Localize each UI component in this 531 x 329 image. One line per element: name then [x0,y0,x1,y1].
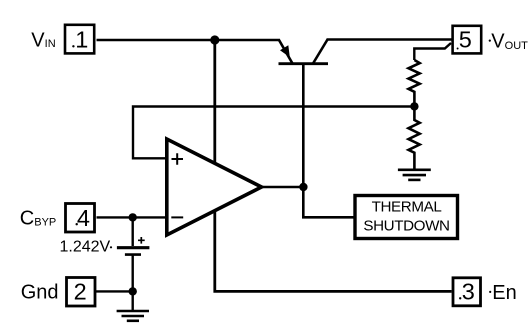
transistor Q1 PNP pass element [279,40,329,64]
wire reference to ground node [131,255,133,311]
voltage reference 1.242V battery [117,237,149,255]
node bypass junction dot [129,213,137,221]
wire bypass to reference [131,217,133,246]
wire inverting input from pin 4 [97,216,167,218]
emitter arrow [280,45,290,57]
svg-text:5: 5 [459,26,472,52]
svg-text:Gnd: Gnd [21,281,59,303]
battery plus plate [117,246,149,249]
op-amp U1 error amplifier [167,139,262,235]
wire VIN vertical supply to amp and En line to pin 3 [215,40,452,291]
svg-text:1: 1 [75,27,88,53]
ground below R2 [398,170,431,180]
wire op-amp output [262,186,304,188]
ground below reference [117,311,149,321]
svg-text:3: 3 [462,279,475,305]
emitter diagonal [279,40,293,64]
svg-text:2: 2 [74,279,87,305]
wire Gnd pin to node [96,290,133,292]
wire op-amp output to transistor base and thermal shutdown [303,64,353,217]
wire feedback from divider tap to + input [133,107,414,159]
svg-text:THERMAL: THERMAL [372,199,442,216]
battery minus plate [125,253,141,256]
node output junction dot [299,183,307,191]
battery plus sign [138,237,145,244]
base bar [279,62,329,65]
collector diagonal [313,40,328,64]
svg-text:4: 4 [77,205,90,231]
node feedback tap dot [410,102,418,110]
svg-text:1.242V: 1.242V [60,239,111,256]
resistor R2 [409,106,420,169]
wire collector to pin 5 [327,38,452,40]
pin box 5 [453,26,482,54]
svg-text:SHUTDOWN: SHUTDOWN [363,218,449,235]
wire VIN from pin 1 to transistor emitter [97,39,281,41]
resistor R1 [409,60,420,106]
svg-text:En: En [492,282,516,304]
thermal shutdown block [355,196,458,239]
pin box 4 [66,204,95,233]
op-amp plus marker [172,153,184,165]
node ground junction dot [129,287,137,295]
node VIN junction dot [210,35,219,44]
op-amp minus marker [171,216,183,218]
pin box 2 [67,278,96,307]
pin box 1 [65,25,94,54]
pin box 3 [453,278,481,306]
wire branch from output to resistor divider [414,43,451,60]
